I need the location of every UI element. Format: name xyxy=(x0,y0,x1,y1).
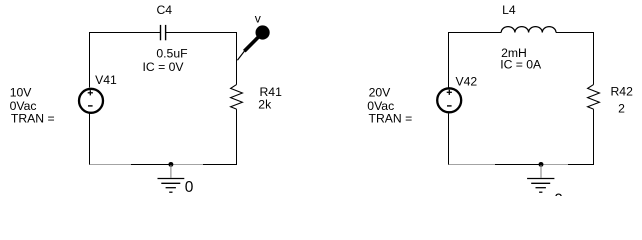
svg-text:0: 0 xyxy=(554,191,563,196)
wire bottom gray segment left xyxy=(449,164,496,166)
wire right vertical upper (corner to R41 top) xyxy=(236,32,238,85)
voltage probe marker xyxy=(237,25,269,60)
inductor L4 xyxy=(501,27,556,33)
wire right vertical lower (R42 bottom to bottom corner) xyxy=(593,109,595,165)
wire top-left segment (V42 to L4) xyxy=(449,32,502,34)
wire bottom black segment to junction xyxy=(131,164,171,166)
wire right vertical upper (corner to R42 top) xyxy=(593,32,595,85)
svg-text:2k: 2k xyxy=(258,97,272,111)
svg-text:v: v xyxy=(255,11,262,25)
svg-text:L4: L4 xyxy=(502,3,516,17)
wire bottom gray segment left xyxy=(90,164,132,166)
voltage source V41 xyxy=(79,89,103,113)
wire bottom gray segment right of junction xyxy=(541,164,568,166)
wire top-right segment (C4 right plate to corner) xyxy=(166,32,237,34)
wire left vertical lower (V42 bottom to bottom corner) xyxy=(448,114,450,166)
svg-text:10V: 10V xyxy=(10,85,33,99)
junction dot right xyxy=(539,162,544,167)
wire bottom black segment to right corner xyxy=(568,164,594,166)
wire bottom black segment to junction xyxy=(495,164,541,166)
resistor R41 xyxy=(231,85,243,110)
wire left vertical upper (top corner to V41 top) xyxy=(89,32,91,88)
svg-text:TRAN =: TRAN = xyxy=(11,112,55,126)
svg-text:20V: 20V xyxy=(369,85,392,99)
wire top-right segment (L4 to corner) xyxy=(556,32,594,34)
wire right vertical lower (R41 bottom to bottom corner) xyxy=(236,109,238,165)
svg-text:IC = 0V: IC = 0V xyxy=(143,60,185,74)
svg-text:C4: C4 xyxy=(157,3,173,17)
ground left xyxy=(158,165,185,192)
svg-text:2: 2 xyxy=(618,101,625,115)
svg-text:TRAN =: TRAN = xyxy=(369,112,413,126)
wire bottom gray segment right of junction xyxy=(171,164,203,166)
capacitor C4 xyxy=(161,25,166,40)
resistor R42 xyxy=(588,85,600,110)
wire left vertical upper (corner to V42 top) xyxy=(448,32,450,88)
svg-text:0: 0 xyxy=(185,179,194,196)
junction dot left xyxy=(168,162,173,167)
ground right xyxy=(527,165,554,192)
svg-text:R42: R42 xyxy=(611,85,634,99)
wire bottom black segment to right corner xyxy=(203,164,237,166)
voltage source V42 xyxy=(437,88,461,112)
svg-text:V42: V42 xyxy=(456,74,478,88)
svg-text:V41: V41 xyxy=(95,73,117,87)
svg-text:0.5uF: 0.5uF xyxy=(156,47,187,61)
wire left vertical lower (V41 bottom to bottom corner) xyxy=(89,114,91,166)
svg-text:IC = 0A: IC = 0A xyxy=(500,57,542,71)
wire top-left segment (V41 to C4 left plate) xyxy=(90,32,161,34)
